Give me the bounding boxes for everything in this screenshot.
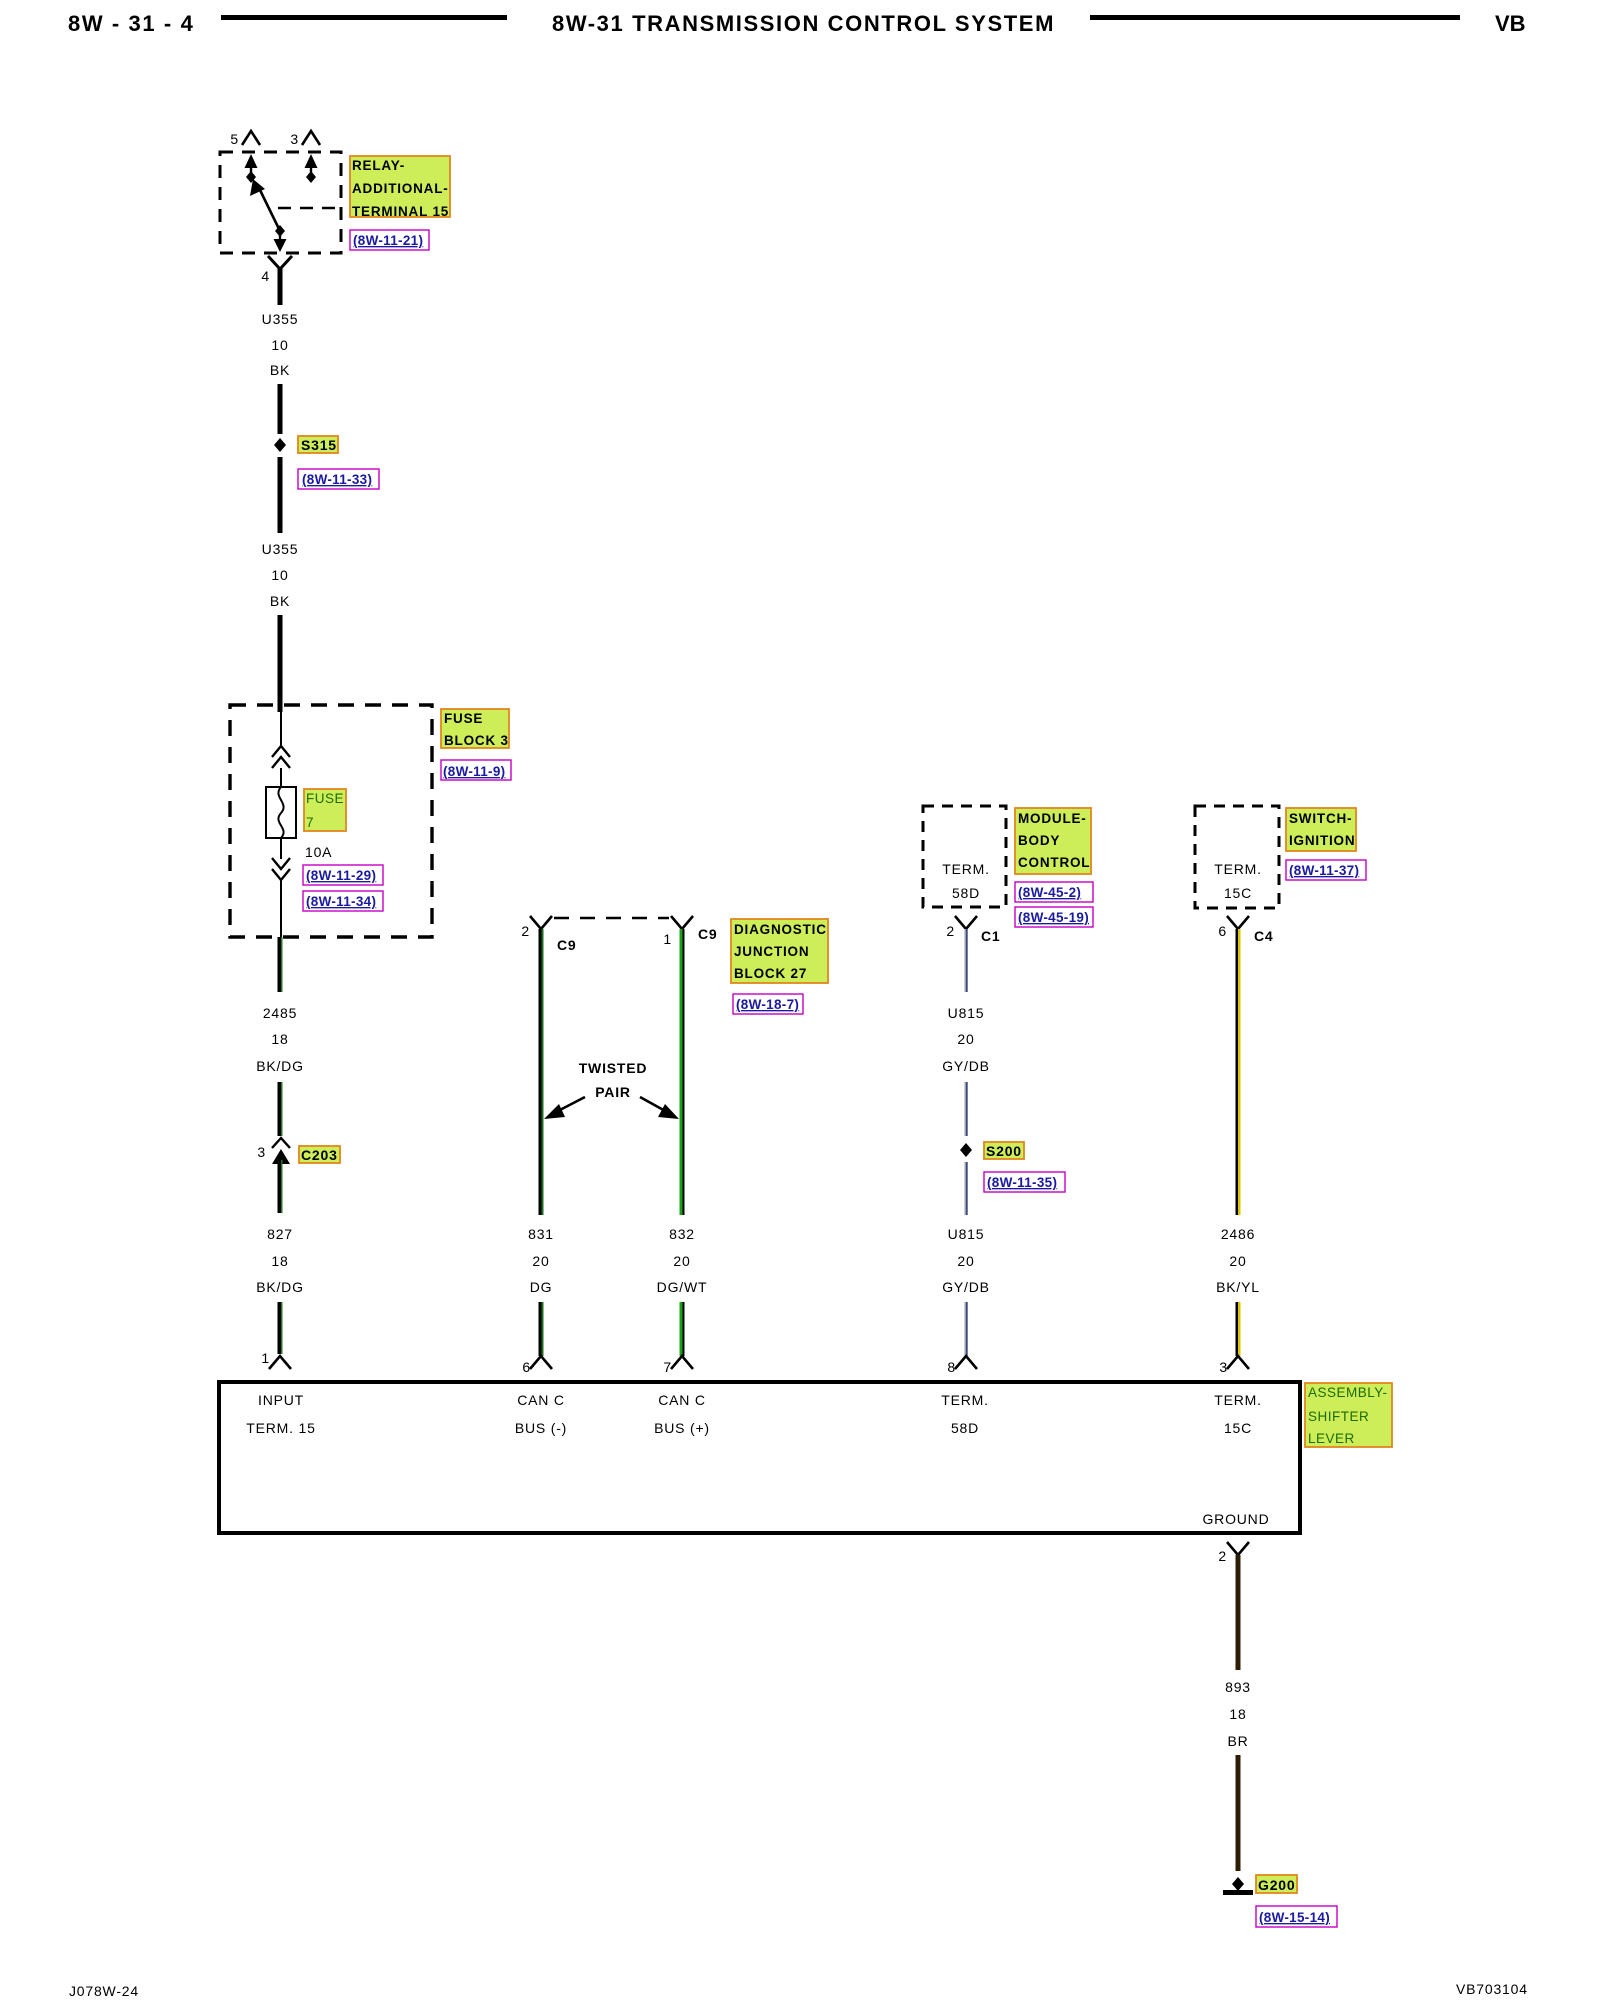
wire 2485 18 BK/DG segment [278,937,282,992]
svg-text:8: 8 [947,1359,956,1375]
ground G200 symbol dot [1232,1877,1244,1891]
wire 893 lower segment [1236,1755,1241,1871]
svg-text:7: 7 [306,815,314,830]
relay switch pivot dot [275,225,285,237]
svg-text:BK/DG: BK/DG [256,1279,304,1295]
body control module dashed outline [923,806,1006,907]
svg-text:U815: U815 [948,1226,985,1242]
svg-text:831: 831 [528,1226,554,1242]
svg-text:(8W-11-9): (8W-11-9) [443,764,505,779]
ground G200 label [1256,1875,1297,1893]
ignition switch label SWITCH-IGNITION [1286,808,1356,851]
svg-text:LEVER: LEVER [1308,1431,1355,1446]
svg-text:VB: VB [1495,11,1526,36]
svg-text:CAN C: CAN C [517,1392,565,1408]
svg-text:2: 2 [1218,1548,1227,1564]
svg-text:DG/WT: DG/WT [657,1279,708,1295]
svg-text:2486: 2486 [1221,1226,1255,1242]
svg-text:GY/DB: GY/DB [942,1058,990,1074]
svg-text:15C: 15C [1224,885,1252,901]
svg-text:3: 3 [1219,1359,1228,1375]
svg-text:VB703104: VB703104 [1456,1981,1528,1997]
svg-text:GY/DB: GY/DB [942,1279,990,1295]
svg-text:BLOCK 3: BLOCK 3 [444,733,509,748]
svg-text:BK/DG: BK/DG [256,1058,304,1074]
shifter pin 1 chevron [269,1356,291,1369]
svg-text:3: 3 [257,1144,266,1160]
svg-text:BK: BK [270,593,290,609]
svg-text:(8W-45-2): (8W-45-2) [1018,885,1081,900]
svg-text:JUNCTION: JUNCTION [734,944,809,959]
svg-text:CONTROL: CONTROL [1018,855,1090,870]
wire segment GY/DB [965,1162,966,1215]
connector C9 pin 1 Y [671,916,693,929]
svg-text:(8W-15-14): (8W-15-14) [1259,1910,1330,1925]
svg-text:G200: G200 [1258,1877,1295,1893]
svg-text:BR: BR [1227,1733,1248,1749]
wire 831 20 DG segment [539,929,542,1215]
svg-text:U355: U355 [262,541,299,557]
svg-text:(8W-11-34): (8W-11-34) [306,894,376,909]
relay pin 4 connector Y [268,256,292,269]
svg-text:IGNITION: IGNITION [1289,833,1355,848]
svg-text:BODY: BODY [1018,833,1060,848]
svg-text:SHIFTER: SHIFTER [1308,1409,1369,1424]
wire segment BK [278,384,283,434]
hyperlink 8W-11-21 [350,230,429,250]
svg-text:(8W-11-35): (8W-11-35) [987,1175,1057,1190]
svg-text:10A: 10A [305,844,332,860]
svg-text:(8W-18-7): (8W-18-7) [736,997,799,1012]
wire segment BK into fuse block [278,615,283,712]
svg-text:7: 7 [663,1359,672,1375]
svg-text:S200: S200 [986,1143,1022,1159]
wire U815 20 GY/DB segment [965,929,966,992]
relay pin 5 connector chevron [242,131,260,145]
hyperlink 8W-11-35 [984,1172,1065,1192]
svg-text:GROUND: GROUND [1202,1511,1269,1527]
wire 2486 20 BK/YL segment [1236,929,1239,1215]
svg-text:827: 827 [267,1226,293,1242]
shifter assembly label ASSEMBLY-SHIFTER LEVER [1305,1383,1392,1447]
connector C1 pin 2 Y [955,916,977,929]
svg-text:20: 20 [1229,1253,1246,1269]
svg-text:832: 832 [669,1226,695,1242]
hyperlink 8W-45-2 [1015,882,1093,902]
svg-text:1: 1 [663,931,672,947]
internal wire [280,768,282,787]
svg-text:INPUT: INPUT [258,1392,304,1408]
twisted pair arrow left [556,1097,585,1112]
svg-text:2: 2 [521,923,530,939]
connector C203 chevron [272,1138,290,1148]
svg-text:BK/YL: BK/YL [1216,1279,1260,1295]
wire 832 20 DG/WT segment [680,929,683,1215]
svg-text:C203: C203 [301,1147,338,1163]
fuse block label FUSE BLOCK 3 [441,709,509,748]
wire segment BK/DG to pin 1 [278,1302,282,1354]
svg-text:(8W-11-29): (8W-11-29) [306,868,376,883]
wire 2486 lower segment [1236,1302,1239,1356]
svg-text:TERM.: TERM. [942,861,990,877]
svg-text:ADDITIONAL-: ADDITIONAL- [352,181,449,196]
splice S315 dot [274,438,286,452]
internal wire below fuse [280,838,282,859]
svg-text:20: 20 [532,1253,549,1269]
svg-text:DG: DG [530,1279,553,1295]
svg-text:RELAY-: RELAY- [352,158,405,173]
svg-text:CAN C: CAN C [658,1392,706,1408]
svg-text:893: 893 [1225,1679,1251,1695]
svg-text:18: 18 [271,1031,288,1047]
svg-text:TERM.: TERM. [1214,861,1262,877]
svg-text:10: 10 [271,337,288,353]
svg-text:4: 4 [261,268,270,284]
svg-text:BUS (+): BUS (+) [654,1420,710,1436]
splice S315 label [298,436,338,453]
relay pin 5 internal arrow [245,154,258,168]
hyperlink 8W-45-19 [1015,907,1093,927]
svg-text:(8W-11-21): (8W-11-21) [353,233,423,248]
fuse block 3 dashed outline [230,705,432,937]
wire segment BK [278,457,283,533]
internal wire to box bottom [280,880,282,937]
shifter pin 3 chevron [1227,1356,1249,1369]
svg-text:U355: U355 [262,311,299,327]
dashed tie between C9 connectors [554,917,669,920]
svg-text:5: 5 [230,131,239,147]
shifter pin 6 chevron [530,1356,552,1369]
svg-text:(8W-45-19): (8W-45-19) [1018,910,1089,925]
svg-text:J078W-24: J078W-24 [69,1983,139,1999]
svg-text:6: 6 [522,1359,531,1375]
double chevron down [272,858,290,869]
relay switch arm with arrowhead [259,188,280,231]
svg-text:TERM.: TERM. [1214,1392,1262,1408]
relay pin 5 terminal dot [246,171,256,183]
hyperlink 8W-18-7 [733,994,803,1014]
svg-text:S315: S315 [301,437,337,453]
relay label RELAY-ADDITIONAL-TERMINAL 15 [350,156,450,217]
svg-text:2485: 2485 [263,1005,297,1021]
svg-text:C4: C4 [1254,928,1274,944]
header rule left [221,15,507,20]
shifter pin 7 chevron [671,1356,693,1369]
svg-text:(8W-11-37): (8W-11-37) [1289,863,1359,878]
hyperlink 8W-11-9 [441,760,511,780]
svg-text:TWISTED: TWISTED [579,1060,648,1076]
hyperlink 8W-11-29 [303,865,383,885]
svg-text:58D: 58D [952,885,980,901]
svg-text:TERM.: TERM. [941,1392,989,1408]
hyperlink 8W-11-34 [303,891,383,911]
connector C203 arrow [272,1149,290,1164]
svg-text:DIAGNOSTIC: DIAGNOSTIC [734,922,827,937]
ground G200 symbol bar [1223,1890,1253,1895]
fuse F7 element wave [278,787,283,838]
relay K1 RELAY-ADDITIONAL-TERMINAL 15 dashed outline [220,152,341,253]
svg-text:C9: C9 [698,926,718,942]
svg-text:8W - 31 - 4: 8W - 31 - 4 [68,11,194,36]
hyperlink 8W-11-37 [1286,860,1366,880]
svg-text:C1: C1 [981,928,1001,944]
wire U355 10 BK stem from relay [278,267,283,305]
connector C9 pin 2 Y [530,916,552,929]
wire 831 lower segment [539,1302,542,1356]
diagnostic junction block 27 label [731,919,828,983]
svg-text:3: 3 [290,131,299,147]
svg-text:6: 6 [1218,923,1227,939]
fuse F7 label [304,789,346,831]
svg-text:(8W-11-33): (8W-11-33) [302,472,372,487]
svg-text:FUSE: FUSE [306,791,344,806]
shifter lever assembly box [219,1382,1300,1533]
svg-text:FUSE: FUSE [444,711,483,726]
wire segment GY/DB to pin 8 [965,1302,966,1356]
svg-text:18: 18 [1229,1706,1246,1722]
shifter pin 8 chevron [955,1356,977,1369]
svg-text:20: 20 [957,1253,974,1269]
svg-text:8W-31 TRANSMISSION CONTROL SYS: 8W-31 TRANSMISSION CONTROL SYSTEM [552,11,1055,36]
svg-text:BUS (-): BUS (-) [515,1420,567,1436]
svg-text:ASSEMBLY-: ASSEMBLY- [1308,1385,1388,1400]
header rule right [1090,15,1460,20]
relay pin 4 internal arrow [279,234,281,244]
svg-text:TERM. 15: TERM. 15 [246,1420,315,1436]
BCM label MODULE-BODY CONTROL [1015,808,1091,874]
shifter ground pin 2 Y [1227,1542,1249,1555]
ignition switch dashed outline [1195,806,1279,908]
splice S200 label [984,1142,1024,1159]
connector C4 pin 6 Y [1227,916,1249,929]
svg-text:10: 10 [271,567,288,583]
fuse block internal wire top [280,712,282,748]
wire 827 18 BK/DG segment [278,1160,282,1213]
svg-text:BK: BK [270,362,290,378]
relay pin 3 terminal dot [306,171,316,183]
wire segment GY/DB [965,1082,966,1136]
double chevron up [272,746,290,757]
svg-text:18: 18 [271,1253,288,1269]
svg-text:U815: U815 [948,1005,985,1021]
svg-text:1: 1 [261,1350,270,1366]
connector C203 label [299,1146,340,1163]
svg-text:PAIR: PAIR [595,1084,631,1100]
hyperlink 8W-11-33 [298,469,379,489]
wire 832 lower segment [680,1302,683,1356]
relay pin 3 connector chevron [302,131,320,145]
splice S200 dot [960,1143,972,1157]
svg-text:2: 2 [946,923,955,939]
hyperlink 8W-15-14 [1256,1906,1337,1927]
fuse F7 body [266,787,296,838]
svg-text:20: 20 [957,1031,974,1047]
svg-text:15C: 15C [1224,1420,1252,1436]
twisted pair arrow right [640,1097,667,1112]
svg-text:MODULE-: MODULE- [1018,811,1087,826]
wire segment BK/DG [278,1082,282,1136]
svg-text:BLOCK 27: BLOCK 27 [734,966,807,981]
relay internal dashed link [278,207,341,210]
svg-text:58D: 58D [951,1420,979,1436]
wire 893 18 BR segment [1236,1555,1241,1670]
relay pin 3 internal arrow [305,154,318,168]
svg-text:TERMINAL 15: TERMINAL 15 [352,204,449,219]
svg-text:C9: C9 [557,937,577,953]
svg-text:20: 20 [673,1253,690,1269]
svg-text:SWITCH-: SWITCH- [1289,811,1352,826]
